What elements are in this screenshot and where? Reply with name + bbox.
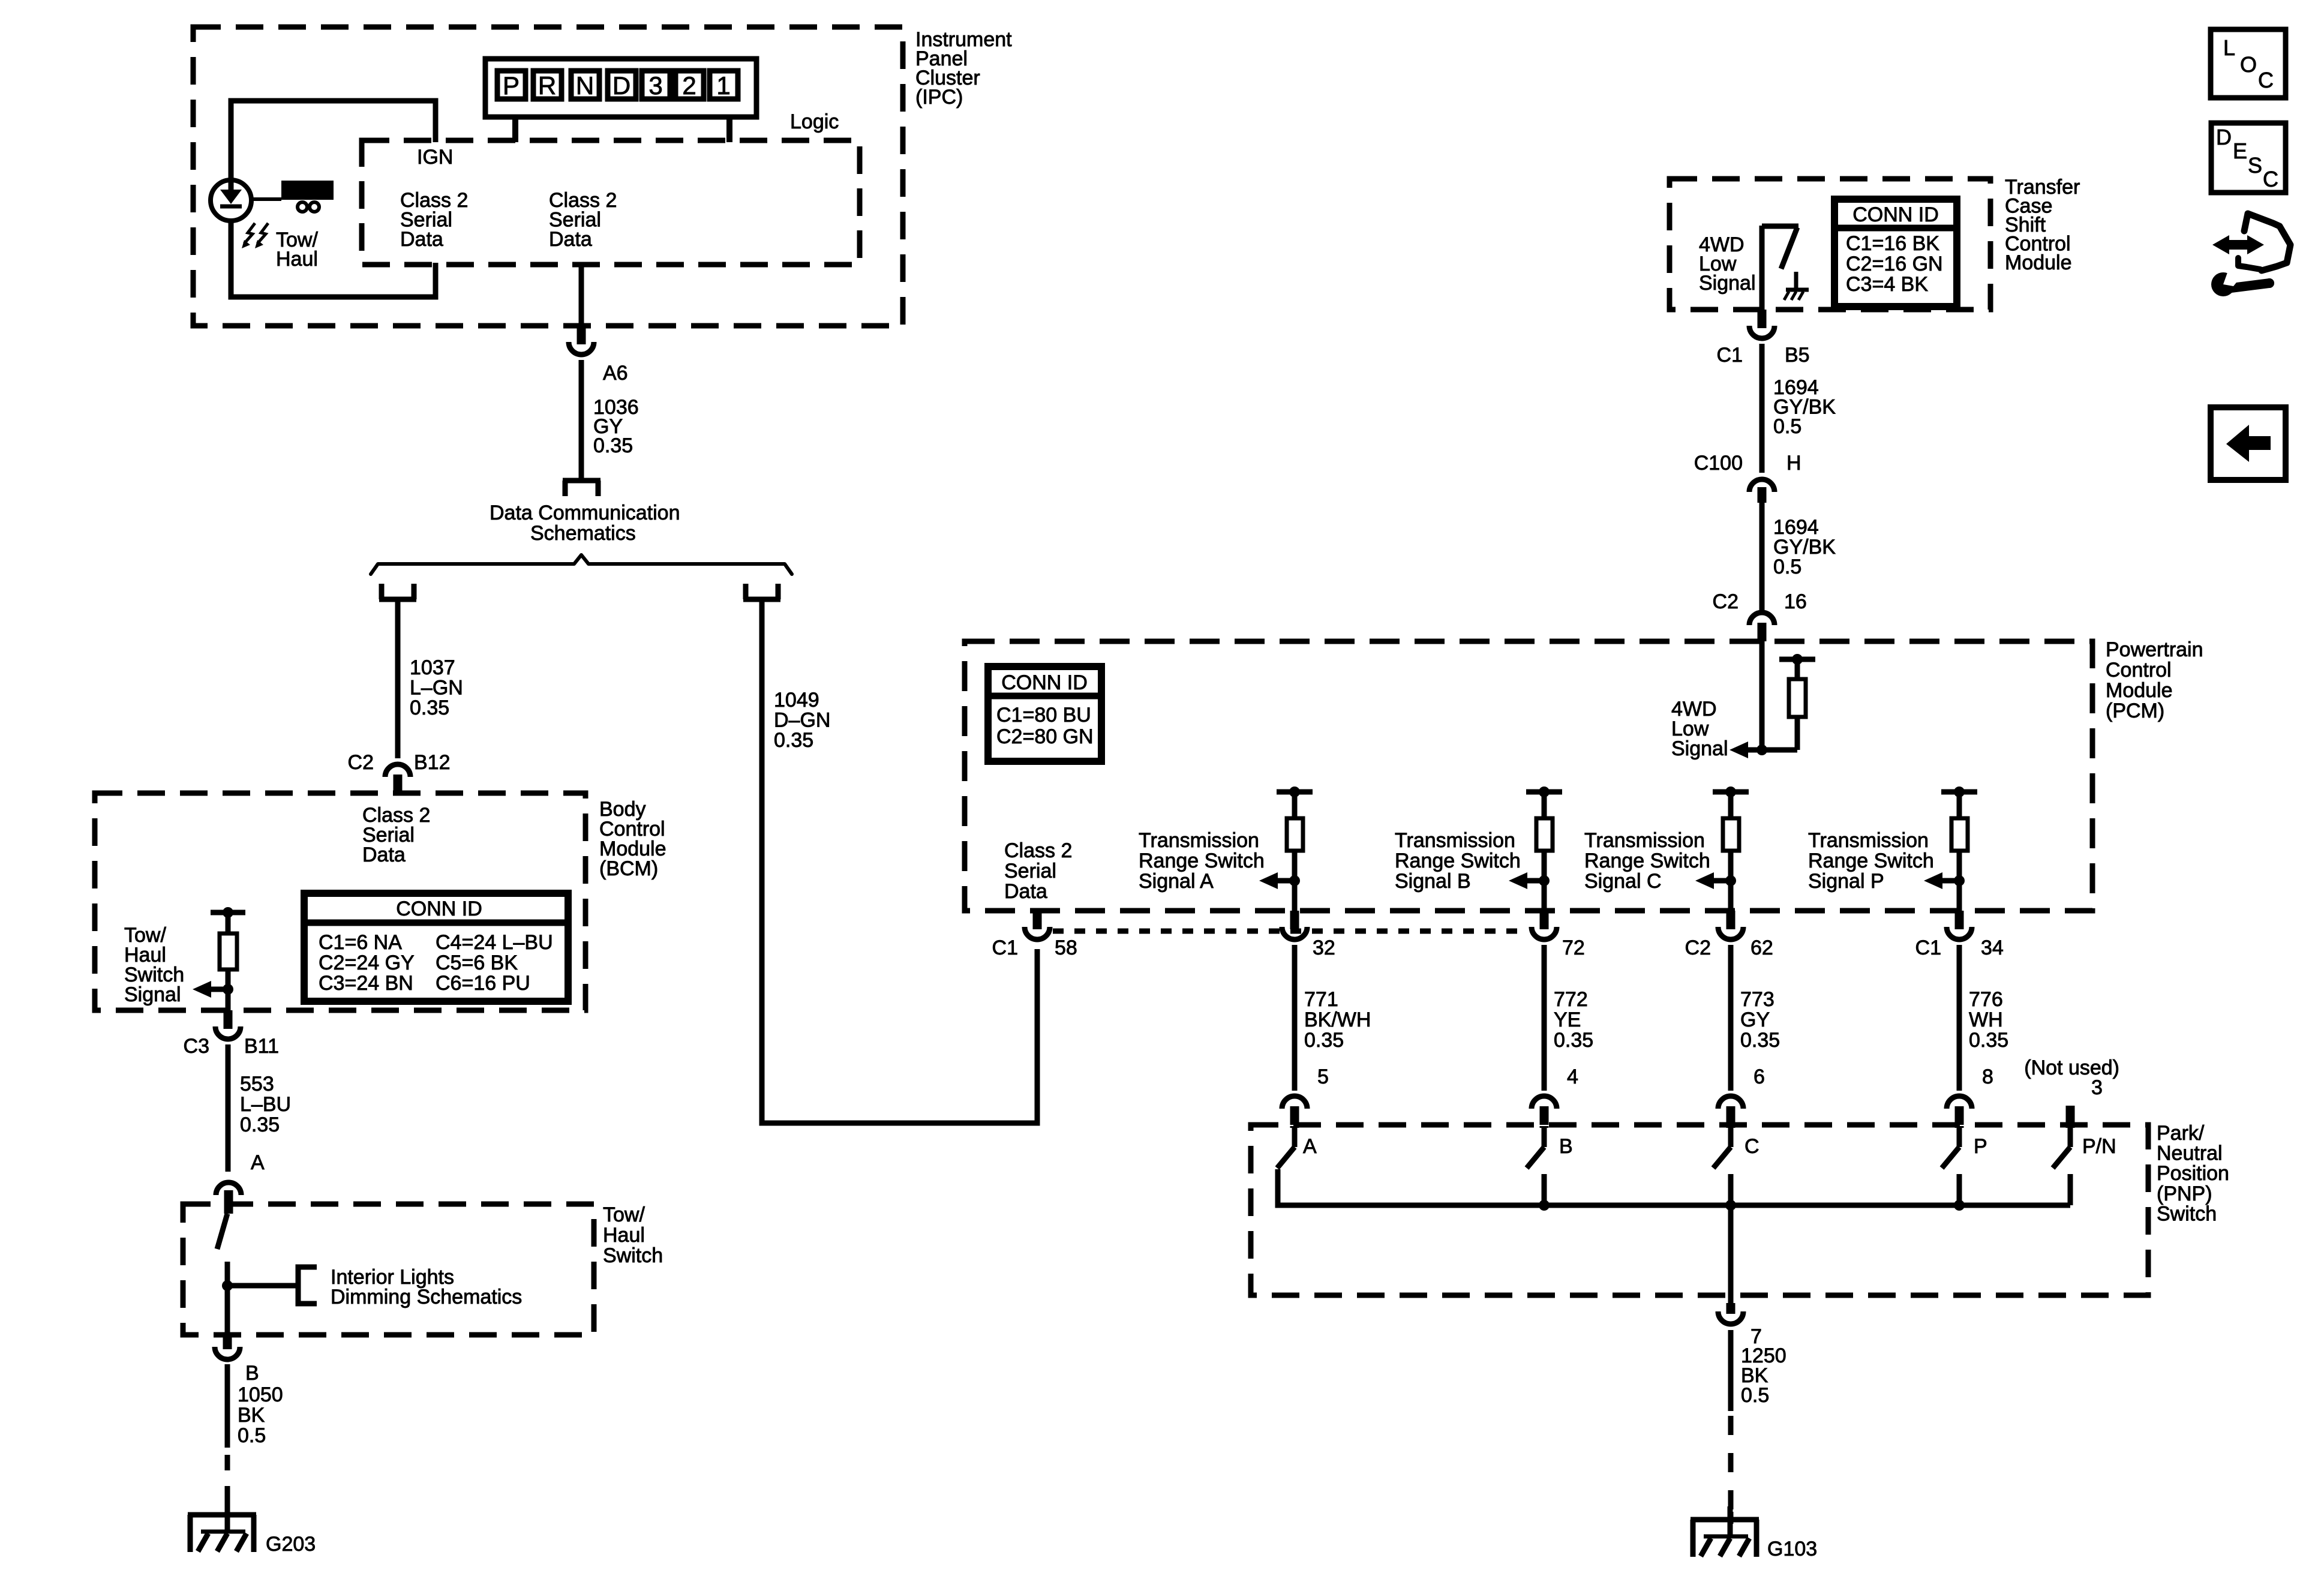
- svg-text:C1=16 BK: C1=16 BK: [1846, 232, 1939, 255]
- svg-text:Transmission: Transmission: [1584, 829, 1705, 852]
- svg-text:P: P: [1974, 1135, 1987, 1158]
- svg-text:CONN ID: CONN ID: [1852, 203, 1939, 226]
- svg-text:0.5: 0.5: [1773, 556, 1801, 578]
- svg-text:C1: C1: [1915, 936, 1941, 959]
- svg-text:(PCM): (PCM): [2106, 700, 2164, 722]
- svg-text:R: R: [538, 71, 556, 100]
- svg-text:P: P: [503, 71, 520, 100]
- svg-text:C2=80 GN: C2=80 GN: [996, 725, 1094, 748]
- svg-text:G103: G103: [1767, 1538, 1817, 1560]
- svg-text:H: H: [1786, 452, 1801, 475]
- svg-text:CONN ID: CONN ID: [1001, 671, 1088, 694]
- svg-text:N: N: [576, 71, 594, 100]
- svg-text:0.35: 0.35: [593, 434, 633, 457]
- svg-text:(Not used): (Not used): [2024, 1056, 2119, 1079]
- svg-text:Range Switch: Range Switch: [1395, 849, 1521, 872]
- svg-text:Module: Module: [2106, 679, 2173, 702]
- svg-text:1050: 1050: [238, 1383, 283, 1406]
- svg-text:B: B: [1559, 1135, 1573, 1158]
- svg-text:772: 772: [1554, 988, 1588, 1011]
- svg-text:IGN: IGN: [417, 146, 453, 169]
- svg-text:Neutral: Neutral: [2157, 1142, 2223, 1165]
- svg-text:2: 2: [682, 71, 696, 100]
- svg-text:34: 34: [1981, 936, 2004, 959]
- svg-text:Range Switch: Range Switch: [1584, 849, 1710, 872]
- svg-text:C: C: [2263, 167, 2278, 191]
- svg-text:Tow/: Tow/: [603, 1203, 645, 1226]
- svg-text:Data: Data: [400, 228, 443, 251]
- svg-text:D: D: [2216, 125, 2232, 149]
- svg-text:B12: B12: [414, 751, 451, 774]
- svg-text:S: S: [2248, 153, 2262, 178]
- svg-text:O: O: [2240, 52, 2257, 77]
- svg-text:B: B: [245, 1362, 259, 1385]
- svg-text:Switch: Switch: [2157, 1202, 2217, 1225]
- svg-text:771: 771: [1304, 988, 1338, 1011]
- svg-text:0.35: 0.35: [240, 1113, 280, 1136]
- svg-text:C3: C3: [184, 1035, 209, 1058]
- svg-text:0.5: 0.5: [1773, 415, 1801, 438]
- svg-text:Logic: Logic: [790, 110, 839, 133]
- svg-text:1037: 1037: [410, 656, 455, 679]
- svg-text:1049: 1049: [774, 689, 819, 712]
- svg-text:(BCM): (BCM): [599, 857, 658, 880]
- svg-text:A6: A6: [603, 362, 628, 385]
- svg-text:C1=80 BU: C1=80 BU: [996, 704, 1091, 727]
- svg-text:Transmission: Transmission: [1808, 829, 1929, 852]
- svg-text:BK/WH: BK/WH: [1304, 1008, 1371, 1031]
- svg-text:Powertrain: Powertrain: [2106, 638, 2203, 661]
- svg-text:Haul: Haul: [603, 1224, 645, 1247]
- svg-text:0.35: 0.35: [1969, 1029, 2008, 1052]
- svg-text:16: 16: [1784, 590, 1807, 613]
- svg-text:B5: B5: [1785, 344, 1810, 367]
- svg-text:Signal B: Signal B: [1395, 870, 1471, 893]
- svg-text:8: 8: [1982, 1065, 1993, 1088]
- svg-text:L: L: [2223, 35, 2235, 60]
- svg-text:C1: C1: [1717, 344, 1743, 367]
- svg-text:L–GN: L–GN: [410, 677, 463, 700]
- svg-text:C: C: [2258, 68, 2274, 92]
- svg-text:C6=16 PU: C6=16 PU: [436, 972, 530, 995]
- svg-text:0.35: 0.35: [1740, 1029, 1780, 1052]
- svg-text:C5=6 BK: C5=6 BK: [436, 951, 518, 974]
- svg-text:C2: C2: [1685, 936, 1711, 959]
- svg-text:B11: B11: [244, 1035, 279, 1058]
- svg-text:0.5: 0.5: [238, 1424, 266, 1447]
- svg-text:0.35: 0.35: [1554, 1029, 1593, 1052]
- svg-text:0.5: 0.5: [1741, 1384, 1769, 1407]
- svg-text:D–GN: D–GN: [774, 709, 830, 732]
- svg-text:Signal: Signal: [124, 983, 181, 1006]
- svg-text:C: C: [1744, 1135, 1759, 1158]
- svg-text:Schematics: Schematics: [530, 522, 636, 545]
- svg-text:58: 58: [1055, 936, 1077, 959]
- svg-text:Position: Position: [2157, 1162, 2229, 1185]
- svg-text:A: A: [1303, 1135, 1317, 1158]
- svg-text:72: 72: [1562, 936, 1585, 959]
- svg-text:1: 1: [716, 71, 730, 100]
- svg-text:C3=4 BK: C3=4 BK: [1846, 273, 1928, 296]
- svg-text:Signal C: Signal C: [1584, 870, 1662, 893]
- svg-text:Transmission: Transmission: [1395, 829, 1515, 852]
- svg-text:Dimming Schematics: Dimming Schematics: [331, 1286, 522, 1308]
- svg-text:C2=24 GY: C2=24 GY: [319, 951, 415, 974]
- svg-text:Transmission: Transmission: [1139, 829, 1259, 852]
- svg-text:YE: YE: [1554, 1008, 1581, 1031]
- svg-text:Module: Module: [2005, 251, 2072, 274]
- svg-text:C1=6 NA: C1=6 NA: [319, 931, 402, 954]
- svg-text:Signal: Signal: [1671, 737, 1728, 760]
- svg-text:Switch: Switch: [603, 1244, 663, 1267]
- svg-text:Data: Data: [549, 228, 592, 251]
- svg-text:C2: C2: [1713, 590, 1739, 613]
- svg-text:G203: G203: [266, 1533, 316, 1556]
- svg-text:Signal P: Signal P: [1808, 870, 1884, 893]
- svg-text:C3=24 BN: C3=24 BN: [319, 972, 413, 995]
- svg-text:553: 553: [240, 1073, 274, 1095]
- svg-text:776: 776: [1969, 988, 2003, 1011]
- svg-text:3: 3: [2091, 1076, 2103, 1099]
- svg-text:D: D: [612, 71, 630, 100]
- svg-text:P/N: P/N: [2082, 1135, 2116, 1158]
- svg-text:773: 773: [1740, 988, 1774, 1011]
- svg-text:(IPC): (IPC): [915, 86, 963, 109]
- svg-text:A: A: [251, 1151, 265, 1174]
- svg-text:Signal: Signal: [1699, 272, 1756, 295]
- svg-text:(PNP): (PNP): [2157, 1182, 2212, 1205]
- svg-text:4: 4: [1567, 1065, 1578, 1088]
- svg-text:C100: C100: [1694, 452, 1743, 475]
- svg-text:E: E: [2233, 139, 2247, 163]
- svg-text:0.35: 0.35: [774, 729, 813, 752]
- svg-text:32: 32: [1313, 936, 1335, 959]
- svg-text:Signal A: Signal A: [1139, 870, 1214, 893]
- svg-text:C1: C1: [992, 936, 1018, 959]
- svg-text:Data Communication: Data Communication: [490, 502, 680, 524]
- svg-text:5: 5: [1317, 1065, 1329, 1088]
- svg-text:0.35: 0.35: [410, 697, 449, 719]
- svg-text:3: 3: [648, 71, 662, 100]
- svg-text:CONN ID: CONN ID: [396, 897, 482, 920]
- svg-text:C4=24 L–BU: C4=24 L–BU: [436, 931, 553, 954]
- svg-text:Data: Data: [1004, 880, 1047, 903]
- svg-text:Data: Data: [362, 843, 406, 866]
- svg-text:C2=16 GN: C2=16 GN: [1846, 253, 1943, 275]
- svg-text:0.35: 0.35: [1304, 1029, 1344, 1052]
- svg-text:Park/: Park/: [2157, 1122, 2205, 1145]
- svg-text:GY: GY: [1740, 1008, 1770, 1031]
- svg-text:Serial: Serial: [1004, 860, 1056, 882]
- svg-text:Range Switch: Range Switch: [1808, 849, 1934, 872]
- svg-text:L–BU: L–BU: [240, 1093, 291, 1116]
- svg-text:Control: Control: [2106, 659, 2172, 682]
- svg-text:WH: WH: [1969, 1008, 2003, 1031]
- svg-text:Haul: Haul: [276, 248, 318, 271]
- svg-text:Range Switch: Range Switch: [1139, 849, 1265, 872]
- svg-text:Class 2: Class 2: [1004, 839, 1072, 862]
- svg-text:BK: BK: [238, 1404, 265, 1427]
- svg-text:6: 6: [1753, 1065, 1765, 1088]
- svg-text:62: 62: [1750, 936, 1773, 959]
- svg-text:C2: C2: [348, 751, 374, 774]
